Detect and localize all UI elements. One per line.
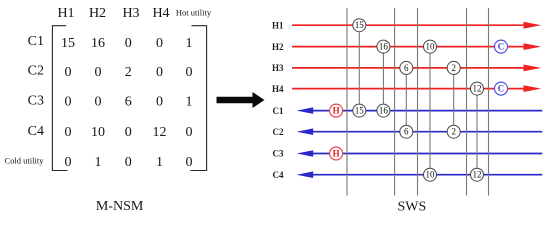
matrix row C3 values 0 0 6 0 1 [65,95,193,110]
matrix row C4 values 0 10 0 12 0 [65,125,193,140]
svg-text:Cold utility: Cold utility [5,156,45,166]
svg-text:SWS: SWS [398,200,427,215]
stage boundary vertical line 4 [466,8,468,196]
svg-text:10: 10 [426,170,436,180]
svg-text:C: C [498,84,505,94]
hot utility circle H on C1 [330,104,343,117]
match circle 6 on H3 [400,61,413,74]
match line H2-C4 (10) [429,47,431,175]
svg-text:1: 1 [186,36,193,51]
svg-text:0: 0 [65,155,72,170]
svg-text:H: H [333,106,340,116]
svg-text:0: 0 [65,65,72,80]
svg-text:H4: H4 [152,6,169,21]
svg-text:12: 12 [473,84,482,94]
svg-text:H3: H3 [272,63,284,73]
svg-text:M-NSM: M-NSM [96,199,144,214]
svg-text:1: 1 [95,155,102,170]
svg-text:16: 16 [379,42,389,52]
svg-text:12: 12 [153,125,167,140]
hot stream H4 line with right arrowhead [292,85,541,92]
svg-text:0: 0 [125,125,132,140]
match circle 16 on H2 [377,40,390,53]
svg-text:0: 0 [186,155,193,170]
match circle 12 on C4 [471,168,484,181]
cold stream C3 line with left arrowhead [297,150,543,157]
match line H3-C2 (6) [405,68,407,132]
stage boundary vertical line 2 [394,8,396,196]
svg-text:H3: H3 [122,6,139,21]
match circle 10 on C4 [424,168,437,181]
svg-text:C1: C1 [28,34,44,49]
svg-text:0: 0 [186,65,193,80]
svg-text:0: 0 [95,95,102,110]
stage boundary vertical line 1 [346,8,348,196]
svg-text:15: 15 [355,20,365,30]
hot utility circle H on C3 [330,147,343,160]
svg-text:H1: H1 [272,20,284,30]
svg-text:C4: C4 [28,124,44,139]
matrix row C2 values 0 0 2 0 0 [65,65,193,80]
match circle 15 on C1 [353,104,366,117]
match circle 16 on C1 [377,104,390,117]
svg-text:16: 16 [91,36,105,51]
svg-text:1: 1 [186,95,193,110]
match circle 15 on H1 [353,19,366,32]
hot stream H3 line with right arrowhead [292,65,541,72]
cold stream C2 line with left arrowhead [297,128,543,135]
match line H2-C1 (16) [382,47,384,111]
svg-text:0: 0 [156,36,163,51]
svg-text:C3: C3 [273,149,284,159]
big black arrow [217,92,265,108]
svg-text:16: 16 [379,106,389,116]
svg-text:C1: C1 [273,106,284,116]
match circle 12 on H4 [471,82,484,95]
hot stream H2 line with right arrowhead [292,43,541,50]
svg-text:2: 2 [451,127,456,137]
svg-text:0: 0 [65,95,72,110]
svg-text:15: 15 [355,106,365,116]
svg-text:C4: C4 [273,170,284,180]
cold stream C4 line with left arrowhead [297,171,543,178]
svg-text:Hot utility: Hot utility [176,8,212,18]
svg-text:H1: H1 [57,6,74,21]
matrix left bracket [52,26,67,171]
svg-text:6: 6 [404,63,409,73]
svg-text:H2: H2 [272,42,284,52]
hot stream H1 line with right arrowhead [292,22,541,29]
svg-text:10: 10 [91,125,105,140]
svg-text:0: 0 [186,125,193,140]
match circle 6 on C2 [400,125,413,138]
match line H3-C2 (2) [453,68,455,132]
match circle 2 on C2 [447,125,460,138]
matrix row C1 values 15 16 0 0 1 [61,36,193,51]
svg-text:H: H [333,149,340,159]
cold utility circle C on H2 [495,40,508,53]
svg-text:C2: C2 [28,64,44,79]
svg-text:1: 1 [156,155,163,170]
svg-text:15: 15 [61,36,75,51]
svg-text:C: C [498,42,505,52]
match circle 10 on H2 [424,40,437,53]
svg-text:10: 10 [426,42,436,52]
matrix row Cold utility values 0 1 0 1 0 [65,155,193,170]
cold stream C1 line with left arrowhead [297,107,543,114]
matrix right bracket [191,26,207,171]
svg-text:0: 0 [156,95,163,110]
match circle 2 on H3 [447,61,460,74]
cold utility circle C on H4 [495,82,508,95]
svg-text:H2: H2 [89,6,106,21]
svg-text:12: 12 [473,170,482,180]
stage boundary vertical line 3 [417,8,419,196]
svg-text:C2: C2 [273,127,284,137]
svg-text:H4: H4 [272,84,284,94]
svg-text:2: 2 [451,63,456,73]
match line H1-C1 (15) [358,25,360,110]
svg-text:6: 6 [404,127,409,137]
svg-text:0: 0 [65,125,72,140]
svg-text:C3: C3 [28,94,44,109]
svg-text:6: 6 [125,95,132,110]
svg-text:0: 0 [125,36,132,51]
svg-text:0: 0 [156,65,163,80]
svg-text:0: 0 [125,155,132,170]
match line H4-C4 (12) [476,89,478,175]
stage boundary vertical line 5 [488,8,490,196]
svg-text:2: 2 [125,65,132,80]
svg-text:0: 0 [95,65,102,80]
